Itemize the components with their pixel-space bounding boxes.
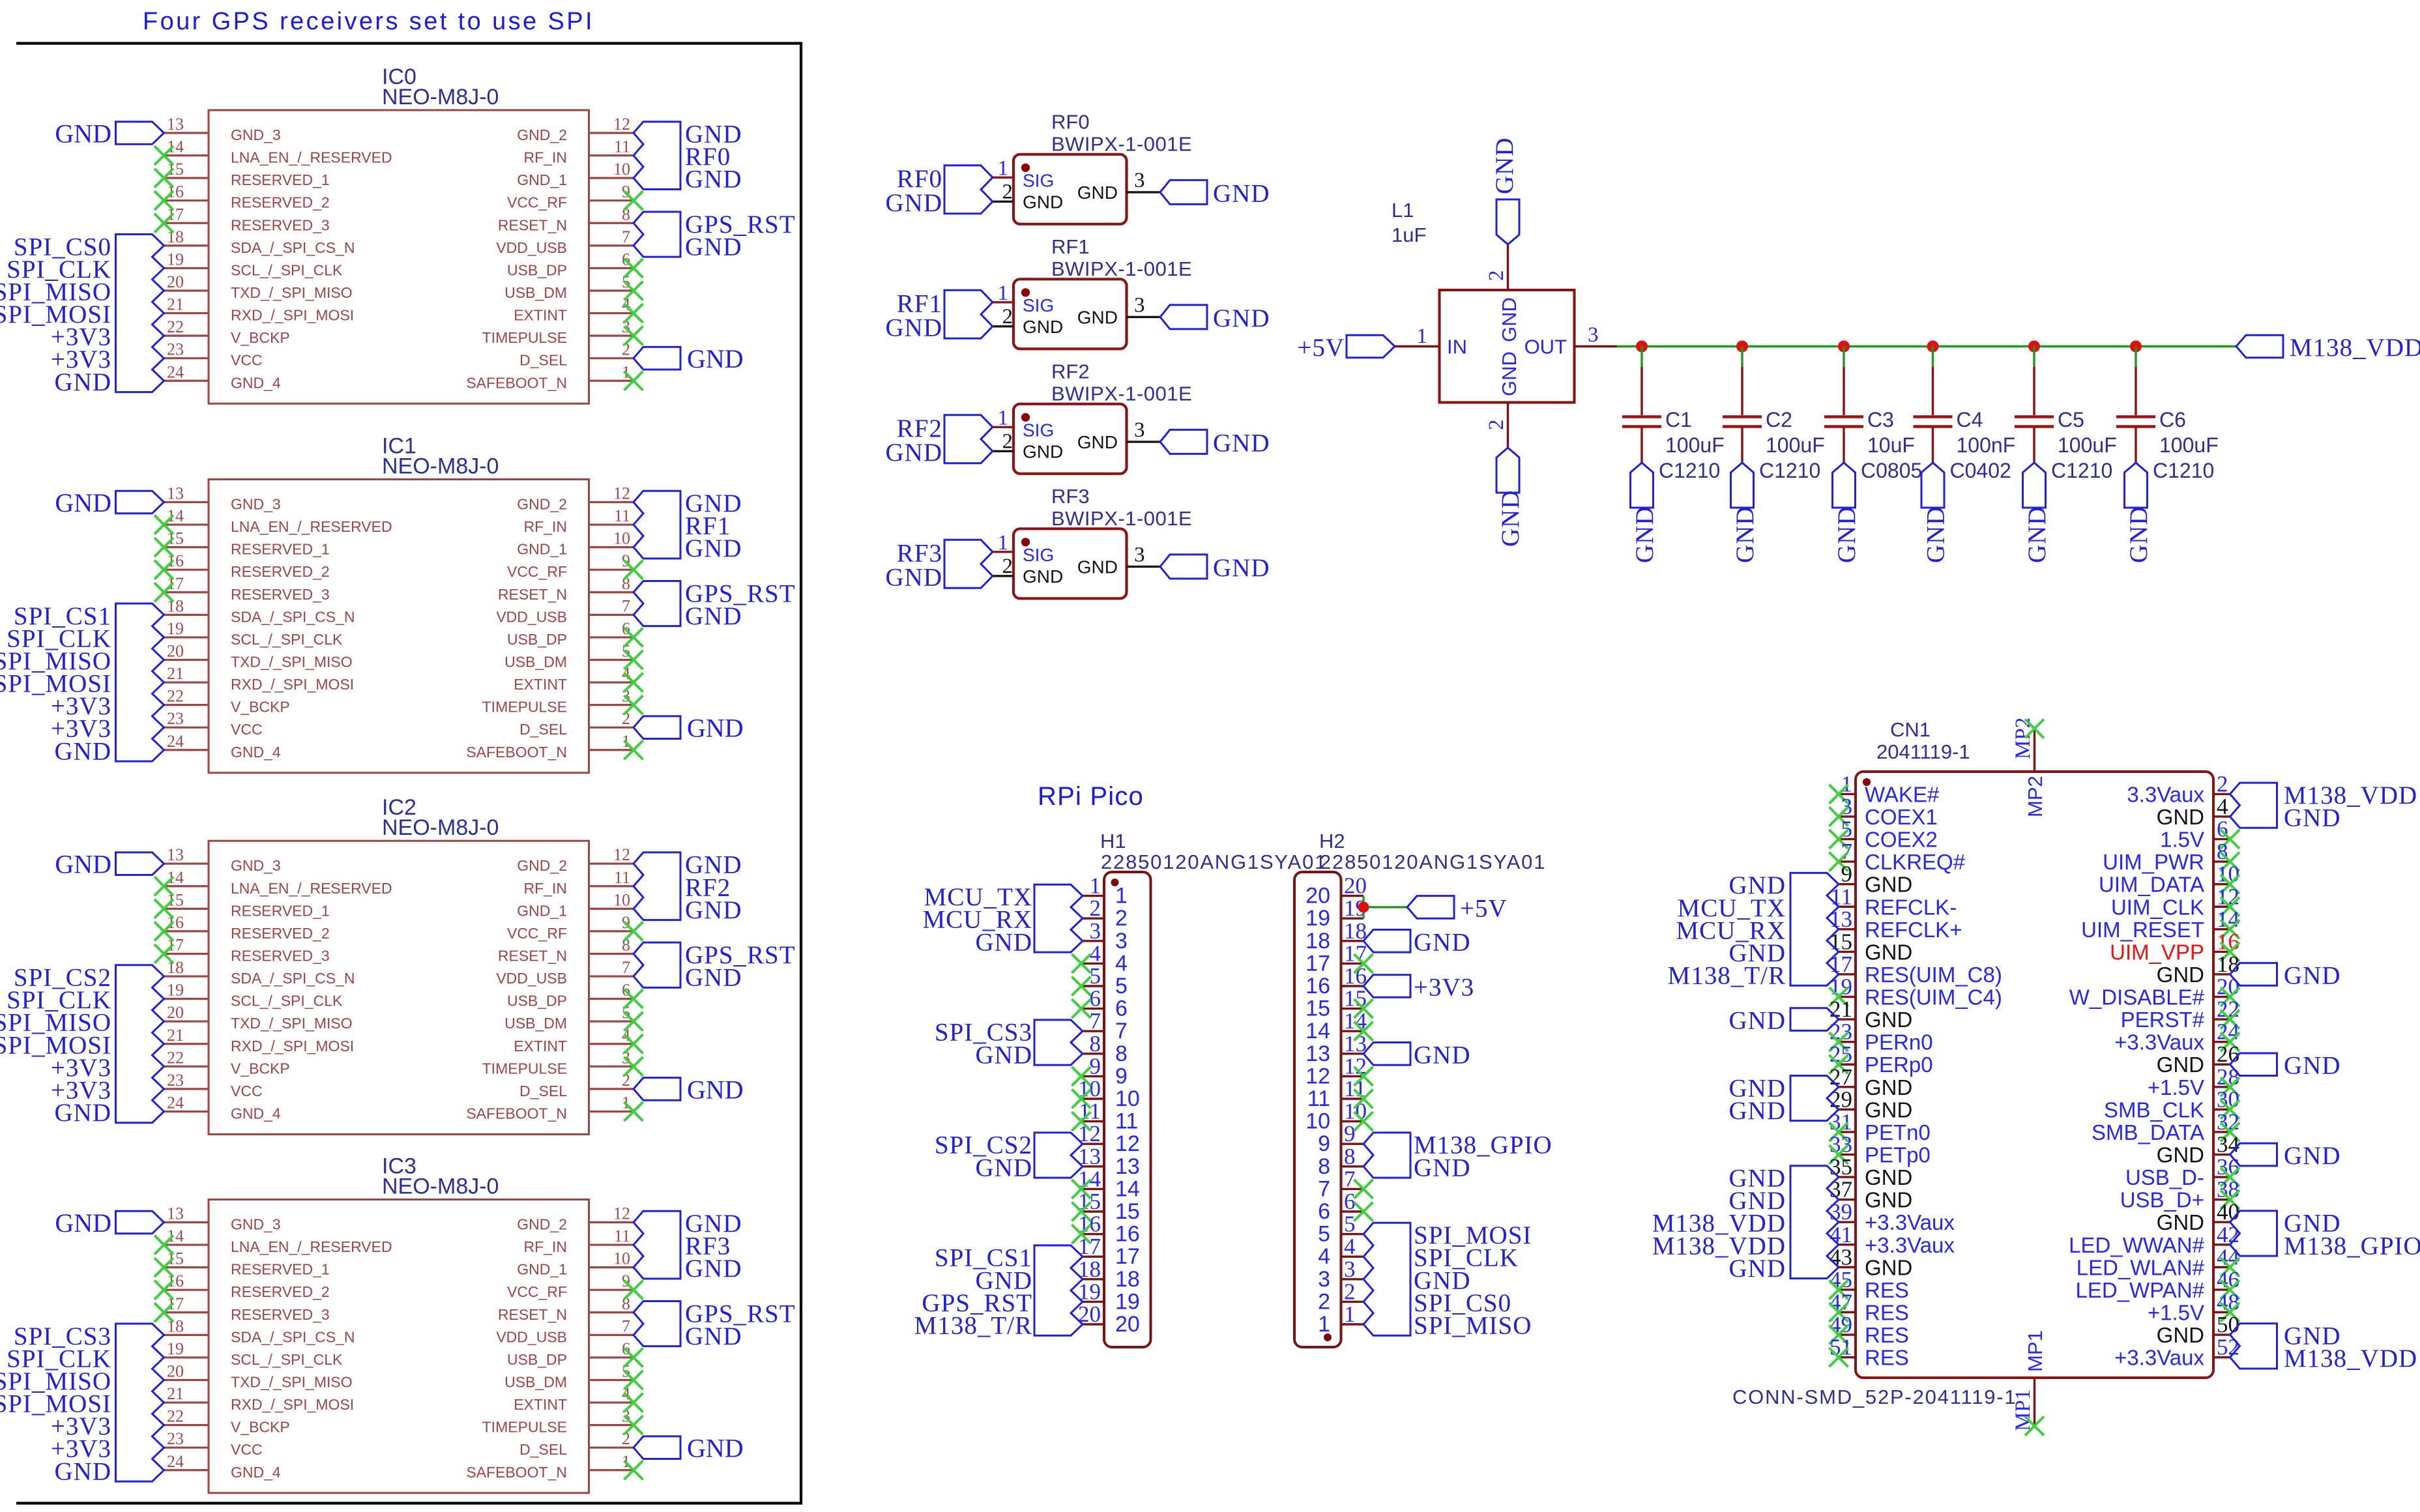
svg-text:GND: GND <box>2157 1143 2204 1167</box>
IC2 pin 4 (EXTINT) wire and number <box>589 1026 634 1045</box>
CN1 pin 51 (RES) wire and number <box>1830 1335 1856 1360</box>
net flag stack GND/RF3/GND at IC3 pins 12,11,10 <box>634 1210 742 1283</box>
CN1 pin 47 (RES) wire and number <box>1830 1290 1856 1315</box>
svg-text:100uF: 100uF <box>2058 433 2117 457</box>
svg-text:MP1: MP1 <box>2024 1330 2047 1372</box>
wire bus to C5 top plate <box>2033 347 2035 416</box>
frame around GPS receiver section (open on left) <box>16 44 801 1504</box>
svg-text:TIMEPULSE: TIMEPULSE <box>482 1419 567 1436</box>
CN1 pin 36 (USB_D-) wire and number <box>2213 1154 2239 1180</box>
IC2 pin 2 (D_SEL) wire and number <box>589 1071 634 1090</box>
svg-text:8: 8 <box>1318 1154 1330 1179</box>
net flag stack M138_GPIO/GND at H2 pins 9,8 <box>1363 1131 1553 1182</box>
svg-text:GND: GND <box>2157 1053 2204 1077</box>
svg-text:D_SEL: D_SEL <box>519 721 567 738</box>
svg-text:VCC: VCC <box>231 1441 263 1458</box>
IC0 pin 2 (D_SEL) wire and number <box>589 340 634 359</box>
net flag M138_VDD at right end of bus <box>2236 334 2420 362</box>
svg-text:GND_3: GND_3 <box>231 857 281 874</box>
IC1 pin 8 (RESET_N) wire and number <box>589 574 634 593</box>
IC2 pin 16 (RESERVED_2) wire and number <box>164 913 209 932</box>
net flag GND at IC1 pin 2 <box>634 714 744 743</box>
net flag stack SPI_CS0/SPI_CLK/SPI_MISO/SPI_MOSI/+3V3/+3V3/GND at IC0 pins 18-24 <box>0 233 164 396</box>
CN1 pin 52 (+3.3Vaux) wire and number <box>2213 1335 2239 1360</box>
svg-text:10: 10 <box>613 529 630 548</box>
CN1 pin 25 (PERp0) wire and number <box>1830 1041 1856 1067</box>
svg-text:22: 22 <box>167 317 184 336</box>
net flag +3V3 at H2 pin 16 <box>1363 974 1474 1002</box>
svg-text:SIG: SIG <box>1023 545 1054 565</box>
svg-text:VDD_USB: VDD_USB <box>496 1328 567 1345</box>
svg-text:C6: C6 <box>2159 408 2186 431</box>
svg-text:21: 21 <box>167 295 184 314</box>
net flag stack GPS_RST/GND at IC0 pins 8,7 <box>634 211 796 261</box>
no-connect X on CN1 pin 25 <box>1830 1055 1848 1074</box>
svg-text:2: 2 <box>1090 895 1101 921</box>
no-connect X on CN1 pin 47 <box>1830 1303 1848 1322</box>
no-connect X on IC0 pin 4 <box>624 304 643 323</box>
H1 pin 6 wire and number <box>1081 986 1104 1011</box>
svg-text:GND_3: GND_3 <box>231 1216 281 1233</box>
svg-text:GND: GND <box>685 166 742 194</box>
net flag stack RF0/GND at RF0 pins 1,2 <box>886 165 993 217</box>
svg-text:6: 6 <box>1115 996 1128 1021</box>
svg-text:GND: GND <box>1213 429 1270 457</box>
svg-text:GND: GND <box>687 1434 744 1463</box>
header H1 22850120ANG1SYA01 body <box>1100 830 1327 1347</box>
IC2 pin 14 (LNA_EN_/_RESERVED) wire and number <box>164 868 209 887</box>
svg-text:42: 42 <box>2217 1222 2239 1247</box>
IC3 pin 3 (TIMEPULSE) wire and number <box>589 1407 634 1426</box>
svg-text:20: 20 <box>1305 884 1330 909</box>
net flag GND below C1 <box>1631 463 1659 563</box>
H1 pin 12 wire and number <box>1078 1121 1104 1146</box>
IC0 pin 20 (TXD_/_SPI_MISO) wire and number <box>164 272 209 291</box>
svg-text:L1: L1 <box>1392 199 1414 222</box>
svg-text:PETn0: PETn0 <box>1865 1120 1931 1144</box>
svg-text:CONN-SMD_52P-2041119-1: CONN-SMD_52P-2041119-1 <box>1732 1386 2017 1408</box>
wire bus to C3 top plate <box>1843 347 1844 416</box>
no-connect X on CN1 pin 8 <box>2221 852 2239 871</box>
svg-text:24: 24 <box>167 362 184 381</box>
svg-text:19: 19 <box>167 981 184 1000</box>
svg-text:RESERVED_2: RESERVED_2 <box>231 925 330 942</box>
net flag +5V at H2 <box>1407 894 1508 922</box>
svg-text:18: 18 <box>1115 1267 1140 1292</box>
H1 pin 5 wire and number <box>1081 963 1104 989</box>
svg-text:LED_WLAN#: LED_WLAN# <box>2077 1255 2205 1279</box>
no-connect X on CN1 pin 44 <box>2221 1258 2239 1277</box>
IC1 pin 12 (GND_2) wire and number <box>589 484 634 503</box>
IC3 pin 11 (RF_IN) wire and number <box>589 1227 634 1245</box>
CN1 pin 45 (RES) wire and number <box>1830 1267 1856 1292</box>
svg-text:10uF: 10uF <box>1867 433 1915 457</box>
svg-text:GND: GND <box>55 119 111 149</box>
inductor filter L1 1uF body <box>1392 199 1575 403</box>
no-connect X on H1 pin 14 <box>1072 1180 1091 1199</box>
IC1 pin 21 (RXD_/_SPI_MOSI) wire and number <box>164 664 209 683</box>
no-connect X on IC2 pin 16 <box>154 922 173 940</box>
svg-text:+5V: +5V <box>1460 894 1508 922</box>
svg-text:GND: GND <box>2284 1052 2341 1080</box>
svg-text:GND: GND <box>1496 490 1524 547</box>
H1 pin 11 wire and number <box>1079 1099 1104 1124</box>
svg-text:1: 1 <box>998 406 1009 429</box>
svg-text:22: 22 <box>167 1048 184 1067</box>
svg-text:VCC: VCC <box>231 1083 263 1099</box>
H2 pin 8 wire and number <box>1341 1144 1364 1169</box>
svg-text:GND: GND <box>976 928 1033 956</box>
net flag stack M138_VDD/GND at CN1 pins 2,4 <box>2230 781 2418 832</box>
IC3 pin 12 (GND_2) wire and number <box>589 1204 634 1223</box>
no-connect X on IC2 pin 3 <box>624 1057 643 1076</box>
svg-text:GND: GND <box>2157 1210 2204 1234</box>
svg-text:LNA_EN_/_RESERVED: LNA_EN_/_RESERVED <box>231 149 392 166</box>
svg-text:USB_DM: USB_DM <box>504 1015 567 1032</box>
svg-text:RES: RES <box>1865 1346 1909 1370</box>
svg-text:3.3Vaux: 3.3Vaux <box>2127 782 2204 806</box>
net flag stack GPS_RST/GND at IC2 pins 8,7 <box>634 941 796 992</box>
IC3 pin 13 (GND_3) wire and number <box>164 1204 209 1223</box>
no-connect X on CN1 pin 46 <box>2221 1280 2239 1299</box>
svg-text:SMB_DATA: SMB_DATA <box>2092 1120 2204 1144</box>
svg-text:BWIPX-1-001E: BWIPX-1-001E <box>1051 382 1192 405</box>
svg-text:RXD_/_SPI_MOSI: RXD_/_SPI_MOSI <box>231 307 354 324</box>
svg-text:12: 12 <box>1305 1064 1330 1088</box>
IC0 pin 11 (RF_IN) wire and number <box>589 138 634 156</box>
svg-text:RF_IN: RF_IN <box>524 880 567 897</box>
no-connect X on IC0 pin 14 <box>154 146 173 165</box>
IC0 pin 18 (SDA_/_SPI_CS_N) wire and number <box>164 227 209 246</box>
svg-text:4: 4 <box>1115 951 1128 976</box>
svg-text:5: 5 <box>1090 963 1101 989</box>
svg-text:GND: GND <box>1077 307 1118 327</box>
wire net M138_VDD power bus (green) <box>1617 345 2236 347</box>
svg-text:C1: C1 <box>1665 408 1692 431</box>
IC1 pin 14 (LNA_EN_/_RESERVED) wire and number <box>164 506 209 525</box>
H1 pin 3 wire and number <box>1081 918 1104 944</box>
CN1 pin 37 (GND) wire and number <box>1830 1177 1856 1202</box>
svg-text:14: 14 <box>1115 1176 1140 1201</box>
CN1 pin 50 (GND) wire and number <box>2213 1312 2239 1337</box>
svg-text:11: 11 <box>1115 1109 1138 1134</box>
H2 pin 20 wire and number <box>1341 873 1367 899</box>
svg-text:19: 19 <box>167 250 184 269</box>
svg-text:7: 7 <box>622 1316 630 1335</box>
svg-text:GND_2: GND_2 <box>517 1216 567 1233</box>
IC2 pin 8 (RESET_N) wire and number <box>589 935 634 954</box>
net flag stack GND/RF0/GND at IC0 pins 12,11,10 <box>634 121 742 194</box>
coax connector RF2 BWIPX-1-001E body <box>1013 360 1192 474</box>
svg-text:RES: RES <box>1865 1278 1909 1302</box>
CN1 pin 12 (UIM_CLK) wire and number <box>2213 884 2239 909</box>
svg-text:15: 15 <box>1115 1199 1140 1224</box>
IC0 pin 3 (TIMEPULSE) wire and number <box>589 317 634 336</box>
svg-text:USB_DP: USB_DP <box>507 993 567 1010</box>
svg-text:H1: H1 <box>1100 830 1126 852</box>
RF1 pin 1 wire (net RF1) and number <box>993 282 1013 305</box>
CN1 pin 2 (3.3Vaux) wire and number <box>2213 771 2230 796</box>
IC3 pin 17 (RESERVED_3) wire and number <box>164 1294 209 1313</box>
svg-text:GND: GND <box>886 563 943 591</box>
svg-text:GND: GND <box>886 439 943 467</box>
svg-text:14: 14 <box>167 868 184 887</box>
svg-text:17: 17 <box>1115 1244 1140 1269</box>
svg-text:15: 15 <box>1305 996 1330 1021</box>
svg-text:EXTINT: EXTINT <box>514 1038 567 1054</box>
net flag GND at IC3 pin 2 <box>634 1434 744 1463</box>
IC1 pin 20 (TXD_/_SPI_MISO) wire and number <box>164 641 209 660</box>
svg-text:20: 20 <box>167 1361 184 1380</box>
svg-text:RESERVED_3: RESERVED_3 <box>231 586 330 603</box>
no-connect X on IC2 pin 5 <box>624 1012 643 1031</box>
svg-text:7: 7 <box>622 227 630 246</box>
svg-text:RXD_/_SPI_MOSI: RXD_/_SPI_MOSI <box>231 1038 354 1054</box>
net flag GND below C4 <box>1921 463 1950 563</box>
svg-text:MP2: MP2 <box>2024 776 2047 817</box>
svg-text:GND_3: GND_3 <box>231 126 281 143</box>
svg-text:22850120ANG1SYA01: 22850120ANG1SYA01 <box>1320 850 1546 873</box>
svg-text:+3.3Vaux: +3.3Vaux <box>2114 1030 2204 1054</box>
CN1 pin 30 (SMB_CLK) wire and number <box>2213 1086 2239 1112</box>
svg-text:COEX1: COEX1 <box>1865 805 1938 829</box>
IC1 pin 6 (USB_DP) wire and number <box>589 619 634 638</box>
svg-text:SDA_/_SPI_CS_N: SDA_/_SPI_CS_N <box>231 970 355 987</box>
svg-text:1uF: 1uF <box>1392 224 1426 246</box>
IC3 pin 5 (USB_DM) wire and number <box>589 1361 634 1380</box>
H2 pin 4 wire and number <box>1341 1234 1364 1259</box>
svg-text:15: 15 <box>1830 929 1852 954</box>
RF3 pin 2 wire (net GND) and number <box>993 555 1013 578</box>
no-connect X on CN1 pin 7 <box>1830 852 1848 871</box>
svg-text:H2: H2 <box>1319 830 1345 852</box>
svg-text:SAFEBOOT_N: SAFEBOOT_N <box>466 374 567 391</box>
svg-text:GND: GND <box>1023 566 1063 587</box>
no-connect X on H2 pin 6 <box>1354 1202 1373 1221</box>
svg-text:COEX2: COEX2 <box>1865 828 1938 852</box>
svg-text:GND: GND <box>2157 805 2204 829</box>
no-connect X on IC0 pin 3 <box>624 327 643 345</box>
no-connect X on IC0 pin 5 <box>624 281 643 300</box>
CN1 pin 3 (COEX1) wire and number <box>1839 794 1856 819</box>
svg-text:7: 7 <box>1090 1008 1101 1034</box>
svg-text:14: 14 <box>167 506 184 525</box>
net flag stack SPI_CS1/SPI_CLK/SPI_MISO/SPI_MOSI/+3V3/+3V3/GND at IC1 pins 18-24 <box>0 602 164 765</box>
CN1 pin 9 (GND) wire and number <box>1839 862 1856 887</box>
CN1 pin 39 (+3.3Vaux) wire and number <box>1830 1199 1856 1225</box>
svg-text:GND: GND <box>1729 1255 1786 1283</box>
H2 pin 1 wire and number <box>1341 1301 1364 1327</box>
CN1 pin 41 (+3.3Vaux) wire and number <box>1830 1222 1856 1247</box>
svg-text:+1.5V: +1.5V <box>2148 1075 2204 1099</box>
IC IC3 NEO-M8J-0 GPS receiver body <box>209 1154 589 1493</box>
no-connect X on CN1 pin 3 <box>1830 807 1848 826</box>
IC2 pin 19 (SCL_/_SPI_CLK) wire and number <box>164 981 209 1000</box>
svg-text:7: 7 <box>1318 1176 1330 1201</box>
svg-text:1: 1 <box>1417 325 1428 348</box>
svg-text:2: 2 <box>1115 906 1128 931</box>
CN1 pin 35 (GND) wire and number <box>1830 1154 1856 1180</box>
svg-text:13: 13 <box>1115 1154 1140 1179</box>
IC2 pin 24 (GND_4) wire and number <box>164 1093 209 1112</box>
svg-text:C5: C5 <box>2058 408 2084 431</box>
svg-text:39: 39 <box>1830 1199 1852 1225</box>
svg-text:TXD_/_SPI_MISO: TXD_/_SPI_MISO <box>231 284 353 301</box>
IC3 pin 20 (TXD_/_SPI_MISO) wire and number <box>164 1361 209 1380</box>
svg-text:1: 1 <box>1344 1301 1356 1327</box>
svg-text:USB_D-: USB_D- <box>2125 1165 2204 1189</box>
net flag GND at IC2 pin 2 <box>634 1075 744 1104</box>
svg-text:EXTINT: EXTINT <box>514 676 567 693</box>
svg-text:Four GPS receivers set to use: Four GPS receivers set to use SPI <box>143 8 594 35</box>
no-connect X on CN1 pin 10 <box>2221 875 2239 894</box>
svg-text:GND: GND <box>685 1322 742 1350</box>
CN1 pin 22 (PERST#) wire and number <box>2213 996 2239 1022</box>
svg-text:RESET_N: RESET_N <box>498 947 567 964</box>
CN1 pin 15 (GND) wire and number <box>1830 929 1856 954</box>
svg-text:CLKREQ#: CLKREQ# <box>1865 850 1966 874</box>
svg-text:D_SEL: D_SEL <box>519 1441 567 1458</box>
svg-text:100nF: 100nF <box>1957 433 2016 457</box>
svg-text:V_BCKP: V_BCKP <box>231 1419 290 1436</box>
svg-text:C1210: C1210 <box>2051 459 2112 482</box>
no-connect X on IC2 pin 1 <box>624 1102 643 1121</box>
H2 pin 13 wire and number <box>1341 1031 1367 1056</box>
CN1 pin 16 (UIM_VPP) wire and number <box>2213 929 2239 954</box>
svg-text:22: 22 <box>167 687 184 706</box>
H2 pin 11 wire and number <box>1341 1076 1366 1101</box>
svg-text:USB_D+: USB_D+ <box>2120 1188 2204 1212</box>
net flag stack RF2/GND at RF2 pins 1,2 <box>886 414 993 467</box>
svg-text:2: 2 <box>1002 180 1013 203</box>
svg-text:8: 8 <box>1115 1041 1128 1066</box>
svg-text:LNA_EN_/_RESERVED: LNA_EN_/_RESERVED <box>231 1238 392 1255</box>
CN1 pin 11 (REFCLK-) wire and number <box>1830 884 1856 909</box>
IC3 pin 22 (V_BCKP) wire and number <box>164 1407 209 1426</box>
svg-text:RF_IN: RF_IN <box>524 518 567 535</box>
svg-text:2: 2 <box>1485 270 1508 282</box>
H2 pin 14 wire and number <box>1341 1008 1367 1034</box>
svg-text:50: 50 <box>2217 1312 2239 1337</box>
svg-text:GND: GND <box>1865 1098 1912 1122</box>
svg-text:M138_GPIO: M138_GPIO <box>2284 1232 2420 1260</box>
svg-text:VCC: VCC <box>231 352 263 369</box>
svg-text:RESERVED_3: RESERVED_3 <box>231 947 330 964</box>
IC IC2 NEO-M8J-0 GPS receiver body <box>209 795 589 1134</box>
no-connect X on IC2 pin 14 <box>154 877 173 895</box>
svg-text:4: 4 <box>1090 940 1101 966</box>
svg-text:34: 34 <box>2217 1132 2239 1157</box>
svg-text:VDD_USB: VDD_USB <box>496 970 567 987</box>
svg-text:GND: GND <box>1213 554 1270 582</box>
RF0 pin 3 wire (net GND) and number <box>1127 169 1161 192</box>
no-connect X on H2 pin 7 <box>1354 1180 1373 1199</box>
svg-text:USB_DM: USB_DM <box>504 653 567 670</box>
svg-text:5: 5 <box>1318 1222 1330 1247</box>
no-connect X on IC1 pin 3 <box>624 695 643 714</box>
svg-text:LNA_EN_/_RESERVED: LNA_EN_/_RESERVED <box>231 518 392 535</box>
svg-text:10: 10 <box>1115 1086 1140 1111</box>
IC1 pin 1 (SAFEBOOT_N) wire and number <box>589 732 634 751</box>
svg-text:M138_VDD: M138_VDD <box>2290 334 2420 362</box>
CN1 pin 46 (LED_WPAN#) wire and number <box>2213 1267 2239 1292</box>
CN1 pin 42 (LED_WWAN#) wire and number <box>2213 1222 2239 1247</box>
no-connect X on IC2 pin 4 <box>624 1034 643 1053</box>
IC3 pin 14 (LNA_EN_/_RESERVED) wire and number <box>164 1227 209 1245</box>
svg-text:7: 7 <box>1115 1019 1128 1043</box>
svg-text:2: 2 <box>1002 305 1013 328</box>
net flag GND at RF3 pin 3 <box>1160 554 1270 582</box>
svg-text:RESET_N: RESET_N <box>498 1306 567 1323</box>
svg-text:1: 1 <box>1090 873 1101 899</box>
svg-text:12: 12 <box>613 484 630 503</box>
net flag GND at CN1 pin 34 <box>2230 1142 2341 1170</box>
CN1 pin 6 (1.5V) wire and number <box>2213 817 2230 842</box>
svg-text:PERST#: PERST# <box>2121 1008 2205 1032</box>
no-connect X on H2 pin 11 <box>1354 1090 1373 1109</box>
svg-text:3: 3 <box>1090 918 1101 944</box>
svg-text:21: 21 <box>167 664 184 683</box>
net flag GND below C3 <box>1833 463 1861 563</box>
IC0 pin 4 (EXTINT) wire and number <box>589 295 634 314</box>
svg-text:20: 20 <box>1344 873 1367 899</box>
net flag GND below C2 <box>1731 463 1760 563</box>
svg-text:13: 13 <box>1305 1041 1330 1066</box>
net flag stack GND/MCU_TX/MCU_RX/GND/M138_T/R at CN1 pins 9-17 <box>1668 871 1839 989</box>
svg-text:GND: GND <box>1922 506 1950 564</box>
H2 pin 9 wire and number <box>1341 1121 1364 1146</box>
svg-text:VDD_USB: VDD_USB <box>496 239 567 256</box>
svg-text:100uF: 100uF <box>2159 433 2219 457</box>
IC1 pin 13 (GND_3) wire and number <box>164 484 209 503</box>
svg-text:11: 11 <box>614 506 630 525</box>
svg-text:LNA_EN_/_RESERVED: LNA_EN_/_RESERVED <box>231 880 392 897</box>
svg-text:13: 13 <box>167 115 184 134</box>
no-connect X on CN1 pin 51 <box>1830 1348 1848 1367</box>
svg-text:12: 12 <box>1115 1131 1140 1156</box>
no-connect X on H2 pin 17 <box>1354 954 1373 973</box>
svg-text:TXD_/_SPI_MISO: TXD_/_SPI_MISO <box>231 1373 353 1390</box>
IC1 pin 7 (VDD_USB) wire and number <box>589 596 634 615</box>
IC1 pin 22 (V_BCKP) wire and number <box>164 687 209 706</box>
net flag GND at RF1 pin 3 <box>1160 304 1270 332</box>
svg-text:GND: GND <box>1023 192 1063 212</box>
H1 pin 2 wire and number <box>1081 895 1104 921</box>
no-connect X on IC3 pin 17 <box>154 1303 173 1322</box>
svg-text:GND: GND <box>976 1041 1033 1069</box>
no-connect X on H1 pin 4 <box>1072 954 1091 973</box>
CN1 pin 24 (+3.3Vaux) wire and number <box>2213 1019 2239 1045</box>
svg-text:NEO-M8J-0: NEO-M8J-0 <box>382 454 499 479</box>
svg-text:8: 8 <box>1344 1144 1356 1169</box>
svg-text:VCC_RF: VCC_RF <box>507 1283 567 1300</box>
wire bus to C2 top plate <box>1741 347 1743 416</box>
IC0 pin 21 (RXD_/_SPI_MOSI) wire and number <box>164 295 209 314</box>
no-connect X on IC1 pin 16 <box>154 560 173 579</box>
svg-text:VCC_RF: VCC_RF <box>507 194 567 211</box>
svg-text:RESERVED_1: RESERVED_1 <box>231 1261 330 1278</box>
svg-text:USB_DP: USB_DP <box>507 631 567 648</box>
no-connect X on IC0 pin 15 <box>154 169 173 188</box>
svg-text:18: 18 <box>1305 929 1330 953</box>
svg-text:RESERVED_2: RESERVED_2 <box>231 563 330 580</box>
IC0 pin 15 (RESERVED_1) wire and number <box>164 160 209 179</box>
IC3 pin 7 (VDD_USB) wire and number <box>589 1316 634 1335</box>
CN1 pin 38 (USB_D+) wire and number <box>2213 1177 2239 1202</box>
svg-text:RESERVED_2: RESERVED_2 <box>231 194 330 211</box>
svg-text:3: 3 <box>1318 1267 1330 1292</box>
svg-text:GND: GND <box>2284 961 2341 989</box>
